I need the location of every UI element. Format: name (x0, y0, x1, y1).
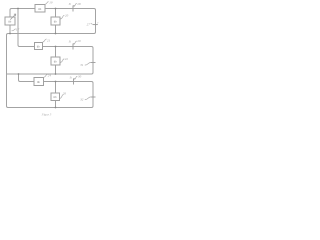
leader block 21 (43, 39, 47, 42)
svg-text:32: 32 (80, 97, 84, 101)
leader jack 28 (74, 3, 77, 6)
svg-text:üb: üb (8, 20, 12, 24)
block 22 (Üb shunt) (51, 57, 60, 65)
leader jack 30 (74, 76, 77, 79)
block 18 (adjustable network) (5, 17, 15, 25)
tick 31 on stage2 rail (91, 62, 96, 64)
svg-text:St: St (69, 40, 71, 43)
svg-text:üb: üb (38, 7, 42, 11)
wire from box 18 top to line a (10, 9, 35, 18)
block 24 (Üb) (34, 78, 44, 86)
svg-text:21: 21 (47, 38, 51, 42)
svg-text:24: 24 (48, 74, 52, 78)
tick 32 on stage3 rail (91, 96, 96, 98)
svg-text:20: 20 (65, 14, 69, 18)
wire box 26 top stub (55, 82, 57, 94)
wire box 20 top stub (55, 9, 57, 18)
wire box 22 bottom stub (55, 65, 57, 74)
wire mid return d (7, 47, 94, 75)
block 19 (Üb) (35, 5, 45, 13)
svg-text:üb: üb (54, 19, 58, 23)
junction bottom stub block 18 (9, 33, 11, 35)
svg-text:üb: üb (37, 44, 41, 48)
svg-text:17: 17 (16, 27, 20, 31)
junction top of block 26 (55, 81, 57, 83)
leader jack 29 (74, 41, 77, 44)
wire line a right / right rail / return b / left rail / bottom rail / stage3 rail (7, 9, 96, 108)
leader block 26 (60, 95, 64, 99)
svg-text:St: St (69, 3, 71, 6)
block 26 (Üb shunt) (51, 93, 60, 101)
leader block 18 (12, 29, 16, 31)
svg-text:üb: üb (54, 59, 58, 63)
svg-text:27: 27 (87, 22, 91, 26)
svg-text:28: 28 (77, 2, 81, 6)
block 20 (Üb shunt) (51, 17, 60, 25)
junction top of block 22 (55, 46, 57, 48)
wire box 26 bottom stub (55, 101, 57, 108)
leader block 24 (44, 75, 48, 78)
jack 28 (73, 6, 75, 12)
leader block 22 (60, 59, 64, 63)
leader tick 32 (85, 97, 91, 100)
junction bottom of block 22 (55, 73, 57, 75)
junction top of block 20 (55, 8, 57, 10)
block 21 (Üb) (35, 43, 43, 50)
wire stage3 left with step (19, 74, 35, 82)
svg-text:26: 26 (63, 91, 67, 95)
wire box 22 top stub (55, 47, 57, 58)
leader block 19 (46, 2, 49, 4)
junction bottom of block 26 (55, 107, 57, 109)
wire box 18 bottom stub (9, 25, 11, 34)
svg-text:30: 30 (78, 75, 82, 79)
svg-text:29: 29 (77, 39, 81, 43)
svg-text:19: 19 (49, 1, 53, 5)
leader block 20 (60, 15, 64, 19)
leader tick 31 (85, 62, 91, 65)
arrow of adjustable block 18 (10, 14, 16, 20)
junction bottom of block 20 (55, 33, 57, 35)
junction node A (17, 8, 19, 10)
wire node A drop to stage2 (18, 9, 35, 47)
wire box 20 bottom stub (55, 25, 57, 34)
svg-text:Figur 5: Figur 5 (41, 113, 52, 117)
svg-text:üb: üb (54, 95, 58, 99)
svg-text:St: St (70, 76, 72, 79)
svg-text:31: 31 (80, 63, 84, 67)
leader tick 27 (91, 24, 93, 25)
svg-text:22: 22 (65, 57, 69, 61)
jack 29 (73, 44, 75, 50)
tick 27 on right rail (93, 24, 98, 26)
svg-text:üb: üb (37, 80, 41, 84)
jack 30 (74, 79, 76, 85)
junction step stage3 (18, 73, 20, 75)
